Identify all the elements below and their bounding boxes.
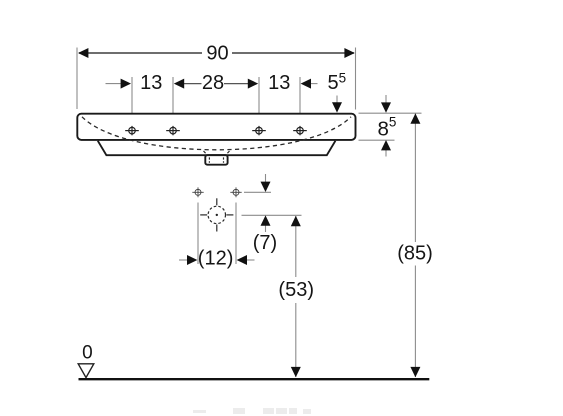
svg-text:13: 13: [140, 72, 162, 94]
svg-text:(7): (7): [253, 232, 277, 254]
svg-text:0: 0: [82, 342, 93, 363]
svg-text:13: 13: [268, 72, 290, 94]
svg-text:90: 90: [206, 42, 228, 64]
svg-text:55: 55: [328, 71, 347, 95]
svg-text:(12): (12): [198, 248, 234, 270]
svg-text:85: 85: [378, 115, 397, 141]
svg-text:(85): (85): [397, 242, 433, 264]
svg-text:28: 28: [202, 72, 224, 94]
svg-text:(53): (53): [278, 279, 314, 301]
